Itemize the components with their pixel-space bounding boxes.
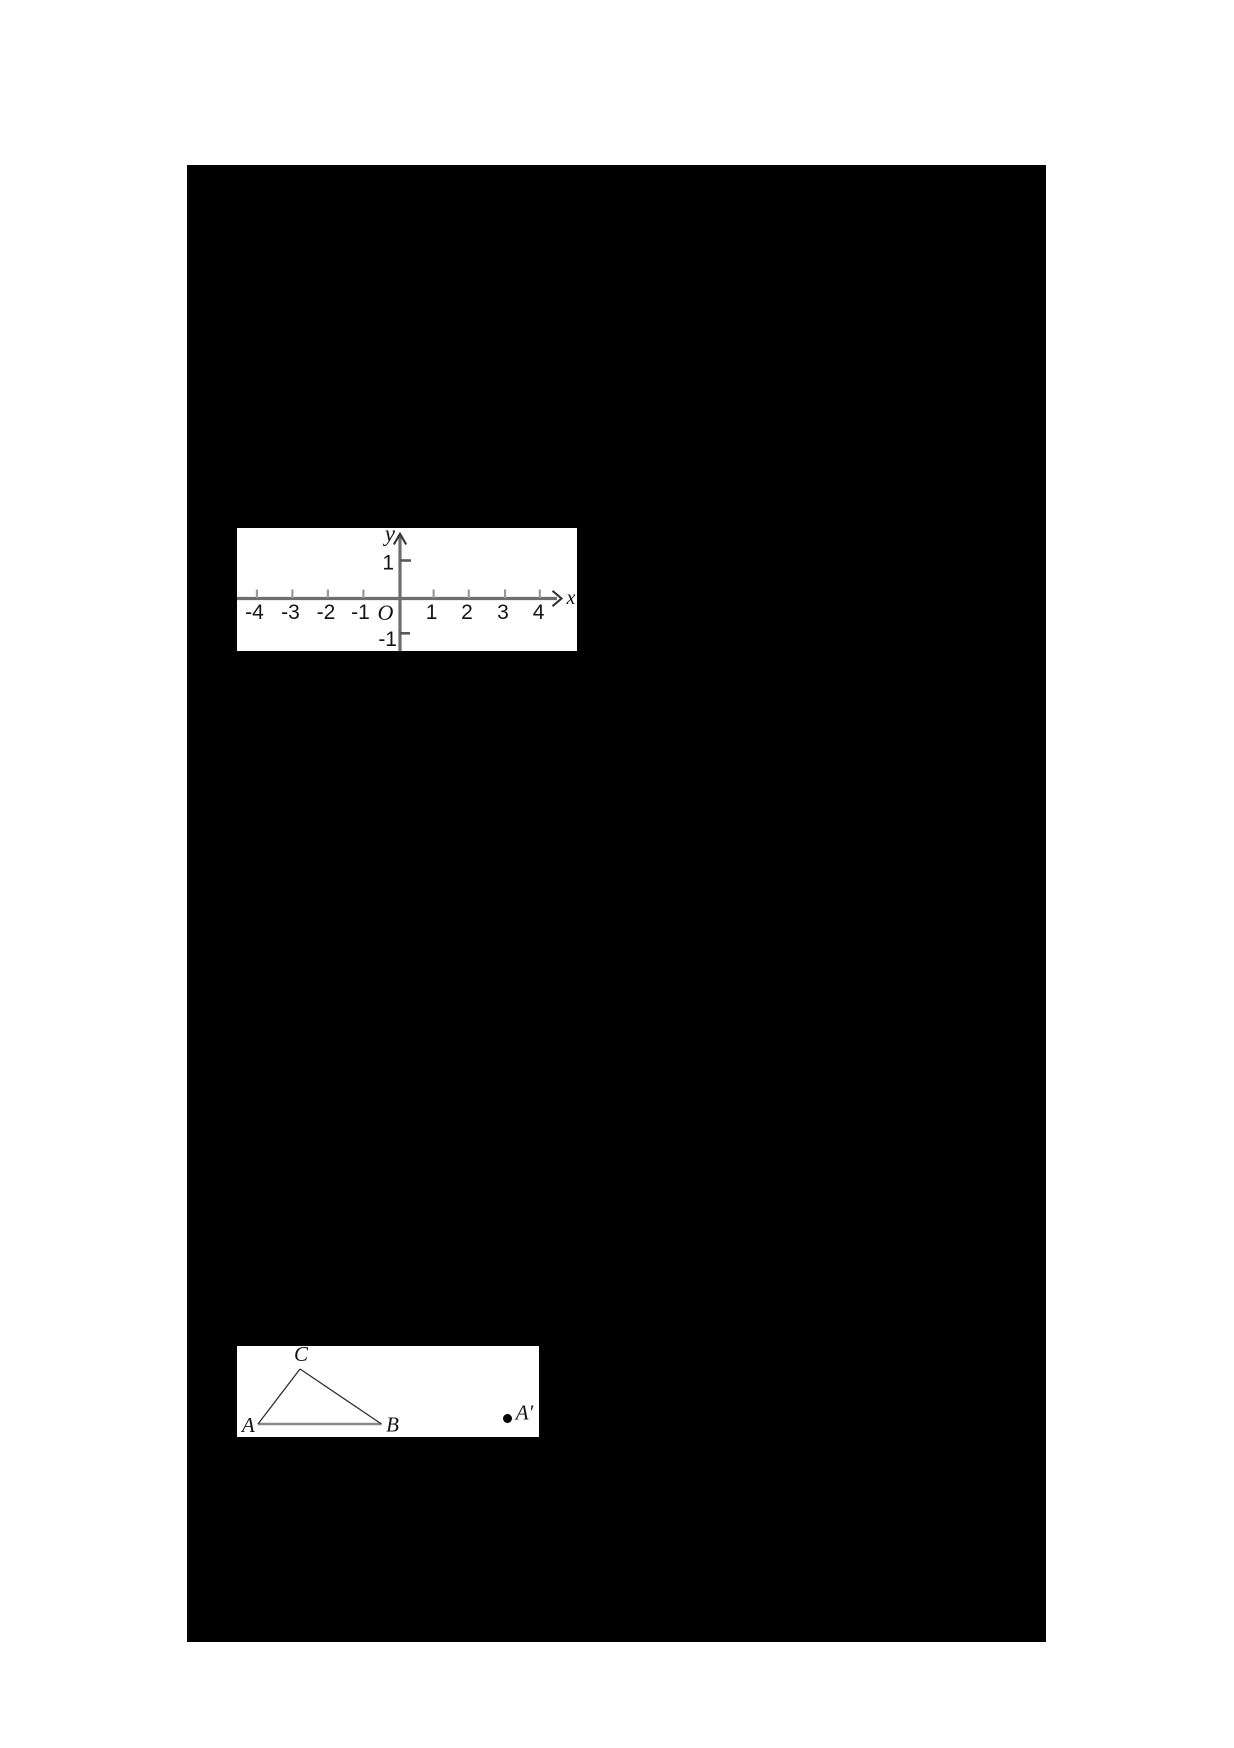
svg-text:A′: A′	[514, 1401, 534, 1425]
side AC	[258, 1369, 300, 1424]
tick -3	[291, 590, 293, 599]
svg-text:-3: -3	[281, 601, 300, 624]
tick y=1	[400, 559, 411, 562]
y-axis	[398, 536, 401, 651]
tick 2	[468, 590, 470, 599]
x-axis arrowhead	[553, 591, 562, 606]
svg-text:2: 2	[461, 601, 473, 624]
svg-text:C: C	[294, 1346, 309, 1366]
svg-text:x: x	[566, 587, 576, 609]
svg-text:-1: -1	[378, 628, 397, 651]
side AB	[258, 1423, 382, 1426]
tick 4	[539, 590, 541, 599]
point A' dot	[503, 1414, 512, 1423]
svg-text:4: 4	[533, 601, 545, 624]
figure 1: coordinate axes inset	[237, 528, 577, 651]
figure 2: triangle ABC with point A' inset	[237, 1346, 539, 1437]
svg-text:-4: -4	[245, 601, 264, 624]
svg-text:1: 1	[382, 552, 394, 575]
svg-text:-2: -2	[317, 601, 336, 624]
side CB	[300, 1369, 382, 1424]
svg-text:y: y	[383, 528, 396, 546]
svg-text:-1: -1	[351, 601, 370, 624]
svg-text:1: 1	[426, 601, 438, 624]
tick -4	[256, 590, 258, 599]
tick 1	[433, 590, 435, 599]
tick 3	[504, 590, 506, 599]
tick y=-1	[400, 632, 410, 635]
svg-text:A: A	[240, 1413, 255, 1437]
black page body	[187, 165, 1046, 1642]
y-axis arrowhead	[394, 534, 406, 545]
svg-text:3: 3	[497, 601, 509, 624]
x-axis	[237, 597, 557, 600]
svg-text:O: O	[378, 600, 394, 625]
tick -2	[327, 590, 329, 599]
svg-text:B: B	[386, 1413, 399, 1437]
tick -1	[362, 590, 364, 599]
